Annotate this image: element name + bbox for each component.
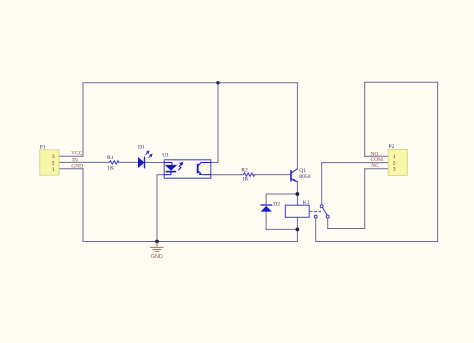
ground symbol xyxy=(150,242,163,252)
wire D2 top branch xyxy=(266,193,297,195)
wire right loop bottom rail xyxy=(316,241,438,243)
svg-text:2: 2 xyxy=(393,160,396,166)
wire top rail right loop xyxy=(365,81,438,83)
wire top rail left loop xyxy=(83,82,297,84)
wire U1 collector stub xyxy=(211,162,218,164)
svg-text:3: 3 xyxy=(52,154,55,160)
wire U1 cathode stub xyxy=(157,174,164,176)
junction gnd at bottom rail xyxy=(155,240,159,244)
wire NO contact riser xyxy=(315,218,317,241)
wire NC horizontal xyxy=(328,228,365,230)
wire U1 emitter to R2 xyxy=(211,174,243,176)
svg-text:U1: U1 xyxy=(162,153,169,159)
junction top rail at U1 collector xyxy=(216,81,219,84)
svg-text:1K: 1K xyxy=(242,177,249,183)
svg-text:VCC: VCC xyxy=(71,151,82,157)
svg-text:D1: D1 xyxy=(138,144,145,150)
switch common contact xyxy=(320,205,323,208)
wire R2 to Q1 base xyxy=(254,174,290,176)
relay K1 actuation dashed link xyxy=(310,211,321,213)
wire P1 pin1 stub xyxy=(59,168,83,170)
svg-text:GND: GND xyxy=(151,254,163,260)
wire D2 bottom branch xyxy=(266,228,297,230)
wire right loop right vertical xyxy=(437,82,439,241)
U1 phototransistor xyxy=(198,163,211,176)
wire R1 to D1 xyxy=(119,161,138,163)
transistor Q1 xyxy=(291,169,297,182)
svg-text:D2: D2 xyxy=(273,202,280,208)
wire gnd branch vertical xyxy=(156,175,158,242)
svg-text:P2: P2 xyxy=(388,144,394,150)
wire relay coil bottom pin xyxy=(296,217,298,229)
svg-text:8050: 8050 xyxy=(299,174,310,180)
wire bottom rail xyxy=(83,241,297,243)
svg-text:3: 3 xyxy=(393,167,396,173)
wire P2 pin1 NO stub xyxy=(365,155,389,157)
svg-text:COM: COM xyxy=(371,157,383,163)
wire Q1 collector vertical xyxy=(296,83,298,169)
wire P1 pin2 to R1 xyxy=(59,161,109,163)
LED D1 xyxy=(138,144,152,168)
switch NC contact xyxy=(326,215,329,218)
optocoupler U1 xyxy=(162,153,211,179)
svg-text:R1: R1 xyxy=(107,155,114,161)
svg-text:1: 1 xyxy=(393,154,396,160)
connector P2 xyxy=(388,144,407,175)
wire P2 pin3 NC stub xyxy=(365,168,389,170)
svg-text:NC: NC xyxy=(371,163,379,169)
wire NO vertical xyxy=(364,82,366,156)
svg-text:K1: K1 xyxy=(303,200,310,206)
wire bottom rail riser xyxy=(296,229,298,241)
svg-text:1K: 1K xyxy=(107,165,114,171)
wire relay coil top pin xyxy=(296,194,298,205)
wire D2 anode vertical xyxy=(265,194,267,205)
U1 emission arrow xyxy=(178,163,182,171)
relay K1 switch xyxy=(314,205,329,218)
wire COM horizontal xyxy=(322,162,389,164)
U1 internal LED xyxy=(164,163,176,175)
wire COM vertical xyxy=(321,163,323,205)
wire P1 pin3 stub xyxy=(59,155,83,157)
switch NO contact xyxy=(314,215,317,218)
wire D2 cathode vertical xyxy=(265,212,267,230)
junction relay bottom node xyxy=(296,228,300,232)
wire VCC vertical xyxy=(82,83,84,156)
switch armature xyxy=(323,208,328,216)
svg-text:2: 2 xyxy=(52,161,55,167)
diode D2 xyxy=(260,202,280,212)
relay K1 coil xyxy=(285,200,310,217)
svg-text:GND: GND xyxy=(71,163,83,169)
wire NC vertical xyxy=(364,169,366,229)
svg-text:1: 1 xyxy=(52,167,55,173)
resistor R2 xyxy=(243,173,254,176)
svg-text:P1: P1 xyxy=(40,144,46,150)
svg-text:R2: R2 xyxy=(241,167,248,173)
wire NC contact riser xyxy=(327,218,329,228)
wire left GND vertical xyxy=(82,169,84,242)
junction Q1 emitter node xyxy=(296,192,300,196)
wire collector riser to rail xyxy=(217,83,219,163)
connector P1 xyxy=(40,144,59,175)
wire D1 to U1 xyxy=(144,162,164,164)
wire Q1 emitter vertical xyxy=(296,182,298,194)
resistor R1 xyxy=(109,161,119,164)
